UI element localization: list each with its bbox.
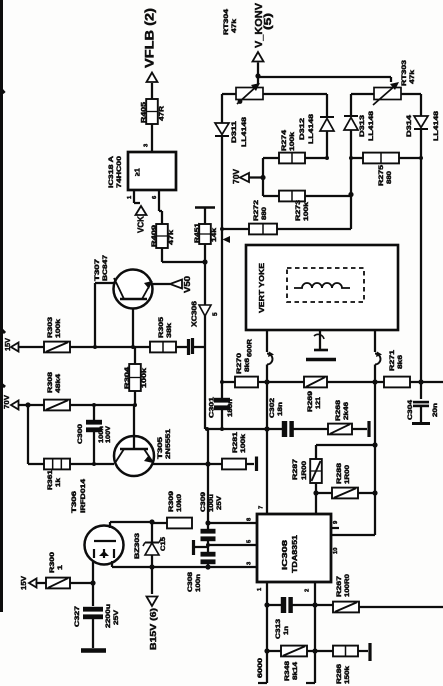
gate IC318 A 74HC00 [128, 152, 176, 190]
svg-text:RT303: RT303 [401, 59, 408, 86]
resistor R305 38k [150, 342, 176, 353]
svg-text:≥1: ≥1 [135, 168, 142, 176]
node D312 bottom [325, 156, 329, 160]
node R287 top wire [372, 442, 377, 447]
svg-text:100n: 100n [99, 426, 105, 443]
rail bar left of pin5 wire [192, 540, 195, 555]
resistor R273 100k [263, 195, 279, 197]
wire yoke left pin down [266, 330, 268, 352]
wire R300 to T306 source node [70, 582, 93, 584]
svg-text:D311: D311 [231, 120, 238, 143]
wire x375 to IC pin wire [374, 445, 376, 493]
svg-text:121: 121 [315, 396, 322, 409]
wire XC306 line down to 429 node [204, 347, 206, 429]
resistor R275 880 [363, 153, 399, 164]
net flag V50 [153, 283, 171, 285]
wire D313 to R275 node [350, 130, 352, 196]
node R348 left [264, 648, 269, 653]
svg-text:C304: C304 [407, 399, 414, 420]
svg-text:(5): (5) [263, 13, 274, 30]
svg-text:R300: R300 [49, 551, 56, 573]
node R309 right / caps [205, 520, 210, 525]
wire emitter node up to 429 wire [207, 429, 209, 464]
svg-text:R451: R451 [194, 222, 201, 243]
svg-text:25V: 25V [113, 609, 120, 625]
node R275 left [349, 156, 353, 160]
svg-text:R270: R270 [236, 352, 243, 374]
svg-text:R272: R272 [253, 199, 260, 221]
wire R308 to T305 base node [70, 404, 135, 406]
svg-text:V50: V50 [183, 275, 192, 293]
wire T307 collector down [132, 309, 134, 348]
svg-text:100k: 100k [303, 201, 310, 221]
wire x222 from D311 down [221, 94, 223, 123]
resistor R268 2k46 [328, 424, 352, 435]
wire y382 to right edge [421, 381, 443, 383]
svg-text:2k46: 2k46 [343, 401, 350, 420]
svg-text:IC318 A: IC318 A [108, 155, 115, 188]
diode D311 LL4148 [215, 123, 229, 135]
wire x222 to C301 [221, 382, 223, 398]
svg-text:47R: 47R [159, 105, 166, 121]
wire RT304 right to D312 [263, 93, 327, 95]
svg-text:2: 2 [305, 589, 311, 592]
net flag B15V (6) [151, 567, 153, 594]
svg-text:C327: C327 [74, 605, 81, 627]
node R270 left [220, 380, 224, 384]
node C302 wire [264, 426, 269, 431]
IC pin 2 stub down [314, 582, 316, 605]
svg-text:R308: R308 [47, 371, 54, 393]
wire V_KONV node to RT304 wiper [257, 76, 259, 85]
svg-text:100n: 100n [195, 574, 202, 592]
bottom edge tick pin1 [258, 682, 267, 684]
svg-text:150k: 150k [344, 665, 351, 684]
node 70V [25, 402, 30, 407]
svg-text:B15V (6): B15V (6) [149, 608, 158, 650]
capacitor C301 180n [220, 427, 224, 431]
node T305 base [133, 403, 137, 407]
wire R409 to node with R451 [161, 248, 163, 262]
svg-text:R287: R287 [292, 458, 299, 480]
wire 70V node down to R273 [262, 178, 264, 197]
svg-text:R271: R271 [389, 349, 396, 371]
svg-text:1n: 1n [283, 626, 290, 635]
svg-text:880: 880 [261, 206, 268, 220]
ground bar right of R268 [352, 428, 367, 430]
capacitor C302 18n body [267, 428, 283, 430]
svg-text:R409: R409 [151, 224, 158, 247]
svg-text:R286: R286 [336, 663, 343, 684]
node C300 top [92, 403, 96, 407]
resistor R409 47k [156, 224, 168, 248]
capacitor C300 100n 100V [93, 405, 95, 422]
wire x267 bottom [266, 605, 268, 683]
potentiometer RT303 47k [351, 93, 374, 95]
svg-text:100k: 100k [289, 131, 296, 151]
rail bar left of XC306 line [191, 338, 194, 354]
resistor R405 47R [146, 99, 158, 124]
wire R451 to node [204, 244, 206, 262]
resistor R267 100R0 [315, 604, 333, 606]
wire R361 to T305 [70, 463, 114, 465]
svg-text:100k: 100k [240, 433, 247, 453]
svg-text:LL4148: LL4148 [241, 116, 248, 147]
wire node429 to C301/C302 [205, 428, 267, 430]
wire RT304 left end to x222 [222, 93, 236, 95]
node T307 collector [131, 345, 135, 349]
capacitor C308 100n body [201, 552, 216, 557]
wire T306 source loop bottom [111, 561, 113, 567]
deflection coil box VERT YOKE [246, 245, 398, 330]
test point XC306 [199, 305, 211, 316]
IC pin 3 wire [112, 566, 257, 568]
wire IC right pin to x375 [331, 534, 375, 536]
IC pin 8 wire [210, 522, 257, 524]
resistor R270 8k6 [222, 381, 235, 383]
resistor R274 100k [305, 157, 327, 159]
wire D311 to R272 node [221, 137, 223, 229]
svg-text:1R00: 1R00 [301, 460, 308, 480]
svg-text:D314: D314 [406, 114, 413, 137]
node R348 right [312, 648, 317, 653]
yoke pin middle to ground [319, 330, 321, 350]
svg-text:R304: R304 [124, 366, 131, 389]
wire RT303 right to D314 [401, 93, 421, 95]
node V_KONV [255, 73, 260, 78]
zener diode BZ303 C15 [145, 543, 159, 555]
svg-text:IC308: IC308 [280, 540, 289, 570]
net flag 70V mid [240, 173, 249, 182]
svg-text:IRFD014: IRFD014 [80, 478, 87, 513]
svg-text:18n: 18n [277, 402, 284, 416]
svg-text:LL4148: LL4148 [368, 110, 375, 141]
svg-text:20n: 20n [432, 403, 439, 417]
svg-text:8k6: 8k6 [397, 354, 404, 369]
wire R287 bottom to IC corner [315, 493, 317, 514]
node yoke right pin [372, 379, 377, 384]
svg-text:LL4148: LL4148 [308, 113, 315, 144]
node T306 source [90, 580, 95, 585]
page border left edge [0, 0, 3, 612]
svg-text:47k: 47k [231, 18, 238, 33]
svg-text:100k: 100k [55, 318, 62, 338]
IC318 pin 6 stub [158, 190, 160, 200]
wire T307 base left [95, 282, 114, 284]
node R273 right [348, 192, 353, 197]
wire x315 bottom [314, 605, 316, 683]
svg-text:1k: 1k [55, 477, 62, 487]
wire x222 to R270 [221, 229, 223, 382]
svg-text:5: 5 [212, 312, 219, 316]
wire x351 diode branch [350, 94, 352, 116]
wire x375 down from R271 node [374, 382, 376, 445]
capacitor C309 body [207, 523, 209, 530]
svg-text:R288: R288 [336, 462, 343, 484]
svg-text:R274: R274 [281, 129, 288, 151]
wire R274 left down to 70V node [263, 157, 279, 159]
svg-text:T306: T306 [71, 490, 78, 513]
svg-text:70V: 70V [2, 395, 11, 409]
svg-text:100k: 100k [141, 367, 148, 388]
node base riser [93, 345, 97, 349]
svg-text:38k: 38k [166, 322, 173, 338]
wire IC318 pin6 to R409 [158, 200, 160, 211]
svg-text:15V: 15V [3, 338, 12, 351]
node R275 right [419, 156, 423, 160]
resistor R304 100k [134, 347, 136, 364]
svg-text:14k: 14k [211, 227, 218, 242]
wire 70V node down to R361 [27, 405, 29, 464]
svg-text:48k4: 48k4 [55, 373, 62, 393]
op-amp IC308 TDA8351 [257, 514, 331, 582]
svg-text:T305: T305 [157, 436, 164, 459]
wire T306 drain loop top [109, 522, 111, 528]
hop on x267 [267, 354, 273, 365]
wire x267 down to IC pin7 [266, 429, 268, 514]
node pin2 wire y605 [312, 602, 317, 607]
svg-text:C300: C300 [77, 423, 84, 444]
ground C327 [81, 648, 106, 653]
svg-text:TDA8351: TDA8351 [290, 535, 299, 573]
resistor R303 100k [44, 342, 70, 353]
svg-text:VERT YOKE: VERT YOKE [257, 263, 266, 313]
arrowhead marker on x222 wire [223, 236, 231, 243]
svg-text:R275: R275 [378, 164, 385, 186]
svg-text:D313: D313 [359, 114, 366, 137]
node pin5 wire [206, 543, 210, 547]
svg-text:600R: 600R [247, 339, 254, 357]
svg-text:15V: 15V [19, 576, 28, 590]
svg-text:C313: C313 [275, 618, 282, 639]
node zener top [149, 519, 154, 524]
net flag VCK [136, 206, 147, 215]
svg-text:BZ303: BZ303 [135, 532, 141, 559]
coil inside yoke box [294, 283, 350, 288]
resistor R286 150k [315, 650, 333, 652]
yoke pin right down [374, 330, 376, 352]
wire x267 between nodes [266, 382, 268, 429]
svg-text:10k0: 10k0 [176, 493, 183, 512]
node R288 right [372, 490, 377, 495]
node pin1 wire y605 [264, 602, 269, 607]
svg-text:R281: R281 [232, 431, 239, 453]
wire D314 to R275 node and down [420, 129, 422, 382]
svg-text:100V: 100V [106, 426, 112, 443]
svg-text:R273: R273 [295, 199, 302, 221]
transistor T306 IRFD014 [85, 526, 124, 565]
svg-text:D312: D312 [299, 117, 306, 140]
wire R303 to T307/R305 node [70, 346, 150, 348]
node pin3 wire [205, 564, 210, 569]
svg-text:C308: C308 [187, 571, 194, 592]
IC pin 9 stub [331, 527, 339, 529]
diode D312 LL4148 [320, 119, 334, 132]
svg-text:6000: 6000 [257, 657, 264, 678]
transistor T305 2N5551 [114, 436, 154, 476]
svg-text:2200u: 2200u [105, 604, 112, 628]
resistor R300 1 [46, 578, 70, 589]
svg-text:R269: R269 [307, 390, 314, 412]
svg-text:100u: 100u [208, 494, 215, 512]
wire node down to XC306 [204, 262, 206, 347]
svg-text:10: 10 [333, 548, 339, 554]
node C304 top [418, 379, 423, 384]
wire T305 emitter right [153, 463, 208, 465]
resistor R361 1k [28, 463, 44, 465]
resistor R288 1R00 [316, 492, 332, 494]
svg-text:8k14: 8k14 [292, 661, 299, 680]
resistor R271 8k6 [375, 381, 384, 383]
node zener bottom [149, 564, 154, 569]
svg-text:R309: R309 [168, 490, 175, 512]
svg-text:70V: 70V [232, 168, 241, 184]
svg-text:BC847: BC847 [102, 254, 109, 281]
diode D314 LL4148 [414, 116, 428, 128]
bottom edge tick pin2 [306, 682, 315, 684]
svg-text:T307: T307 [94, 258, 101, 281]
svg-text:100R0: 100R0 [344, 573, 351, 597]
diode D313 LL4148 [344, 118, 358, 131]
capacitor C327 2200u 25V [92, 583, 94, 606]
wire V_KONV rail to RT303 [258, 76, 391, 78]
potentiometer RT304 47k [236, 88, 263, 100]
svg-text:880: 880 [386, 170, 393, 184]
svg-text:RT304: RT304 [223, 8, 230, 35]
wire R275 right to x422 [399, 157, 421, 159]
svg-text:R268: R268 [335, 399, 342, 421]
resistor R309 10k0 [167, 518, 192, 529]
node 429/207 [205, 427, 209, 431]
svg-text:180n: 180n [227, 399, 234, 417]
svg-text:R303: R303 [47, 316, 54, 338]
svg-text:1R00: 1R00 [344, 464, 351, 484]
svg-text:VCK: VCK [137, 216, 146, 233]
wire R405 to IC318 pin 3 [151, 124, 153, 152]
svg-text:R405: R405 [141, 101, 148, 123]
wire node up to T306 [92, 562, 94, 583]
svg-text:R305: R305 [158, 316, 165, 338]
resistor R308 48k4 [44, 400, 70, 411]
node R270 right [264, 379, 269, 384]
wire x351 down to R272 wire [350, 196, 352, 229]
ground bar right of R286 [358, 650, 368, 652]
IC pin 5 wire [208, 544, 257, 546]
hop on x375 [375, 354, 381, 365]
resistor R269 121 [267, 381, 304, 383]
svg-text:8k6: 8k6 [244, 357, 251, 372]
capacitor C304 20n [420, 382, 422, 399]
svg-text:2N5551: 2N5551 [165, 428, 172, 459]
wire R304 to 70V rail [134, 391, 136, 405]
resistor R287 1R00 [310, 459, 322, 483]
svg-text:47k: 47k [409, 69, 416, 84]
resistor R272 880 [249, 224, 277, 235]
resistor R451 14k [199, 224, 211, 244]
node R409/R451 [202, 259, 207, 264]
svg-text:VFLB (2): VFLB (2) [145, 8, 157, 68]
svg-text:C302: C302 [269, 397, 276, 418]
svg-text:7: 7 [259, 506, 265, 509]
transistor T307 BC847 [114, 270, 153, 309]
svg-text:LL4148: LL4148 [433, 110, 440, 141]
node T305 emitter [205, 461, 210, 466]
wire R267 to right edge [359, 606, 443, 608]
node C300 bottom [92, 462, 96, 466]
wire VFLB arrow to R405 [151, 83, 153, 99]
rail bar right of R305 [176, 346, 187, 348]
svg-text:XC306: XC306 [192, 301, 199, 327]
svg-text:1: 1 [57, 564, 64, 570]
svg-text:C309: C309 [200, 491, 207, 512]
svg-text:C15: C15 [161, 536, 167, 551]
node R287 bottom [315, 483, 317, 493]
svg-text:25V: 25V [216, 495, 223, 510]
node R272 wire [220, 227, 224, 231]
wire emitter node down to R309 node [207, 464, 209, 523]
wire R287 top [316, 444, 375, 446]
svg-text:R267: R267 [336, 575, 343, 597]
svg-text:R348: R348 [284, 660, 291, 681]
node 70V mid [260, 175, 265, 180]
capacitor C313 1n [267, 604, 281, 606]
svg-text:47k: 47k [168, 229, 175, 245]
wire D312 to R274 wire [326, 131, 328, 158]
wire T307 base riser [94, 283, 96, 347]
svg-text:74HC00: 74HC00 [116, 155, 123, 188]
IC pin 1 stub down [266, 582, 268, 605]
IC318 pin 1 stub [133, 190, 135, 200]
svg-text:R361: R361 [47, 469, 54, 490]
rail stub above R451 [195, 206, 215, 209]
resistor R281 100k [208, 463, 222, 465]
resistor R348 8k14 [267, 650, 281, 652]
